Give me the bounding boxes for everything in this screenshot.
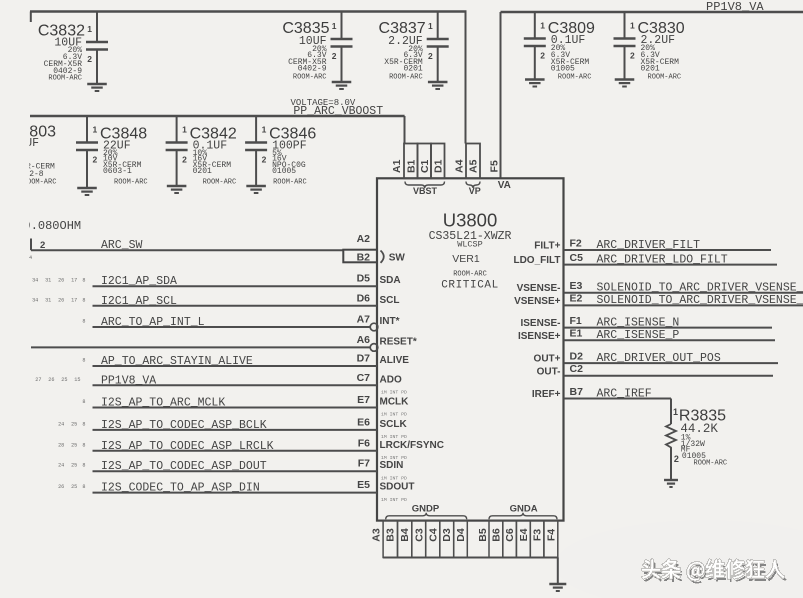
svg-text:34: 34 xyxy=(32,297,38,303)
svg-text:25: 25 xyxy=(71,484,77,490)
svg-text:4: 4 xyxy=(29,255,32,261)
svg-text:1: 1 xyxy=(630,21,635,31)
svg-text:2: 2 xyxy=(630,51,635,61)
svg-text:01005: 01005 xyxy=(551,65,575,74)
svg-text:SDOUT: SDOUT xyxy=(380,482,415,493)
svg-text:31: 31 xyxy=(45,278,51,284)
svg-text:F1: F1 xyxy=(570,315,582,327)
svg-text:8: 8 xyxy=(82,484,85,490)
svg-text:1: 1 xyxy=(87,24,92,34)
svg-text:1: 1 xyxy=(182,125,187,135)
svg-text:34: 34 xyxy=(32,278,38,284)
svg-text:0201: 0201 xyxy=(193,167,212,176)
svg-text:26: 26 xyxy=(48,377,54,383)
svg-text:E7: E7 xyxy=(357,394,370,406)
svg-text:1M INT PD: 1M INT PD xyxy=(381,390,407,396)
svg-text:25: 25 xyxy=(61,377,67,383)
svg-text:ARC_ISENSE_N: ARC_ISENSE_N xyxy=(597,316,680,329)
svg-text:ARC_DRIVER_LDO_FILT: ARC_DRIVER_LDO_FILT xyxy=(597,253,728,266)
svg-text:ROOM-ARC: ROOM-ARC xyxy=(453,270,487,278)
svg-text:F5: F5 xyxy=(489,160,501,172)
svg-text:WLCSP: WLCSP xyxy=(457,240,483,250)
svg-text:26: 26 xyxy=(58,278,64,284)
svg-text:ARC_DRIVER_FILT: ARC_DRIVER_FILT xyxy=(597,239,701,252)
svg-text:1M INT PD: 1M INT PD xyxy=(381,497,407,503)
svg-text:ARC_DRIVER_OUT_POS: ARC_DRIVER_OUT_POS xyxy=(597,352,721,365)
svg-text:8: 8 xyxy=(82,319,85,325)
svg-text:25: 25 xyxy=(71,421,77,427)
svg-text:1: 1 xyxy=(673,407,678,417)
svg-text:1: 1 xyxy=(540,21,545,31)
svg-text:RESET*: RESET* xyxy=(380,336,417,347)
svg-text:0402-9: 0402-9 xyxy=(298,65,327,74)
svg-text:C3: C3 xyxy=(413,528,425,542)
svg-text:GNDP: GNDP xyxy=(412,504,440,515)
svg-text:U3800: U3800 xyxy=(443,210,498,231)
svg-text:B4: B4 xyxy=(399,528,411,542)
svg-text:B5: B5 xyxy=(477,528,489,542)
svg-text:B2: B2 xyxy=(357,252,371,264)
svg-text:I2S_CODEC_TO_AP_ASP_DIN: I2S_CODEC_TO_AP_ASP_DIN xyxy=(101,482,260,495)
svg-text:ROOM-ARC: ROOM-ARC xyxy=(203,179,237,187)
svg-text:ROOM-ARC: ROOM-ARC xyxy=(48,75,82,83)
svg-text:SOLENOID_TO_ARC_DRIVER_VSENSE_: SOLENOID_TO_ARC_DRIVER_VSENSE_P xyxy=(597,294,803,307)
svg-text:27: 27 xyxy=(35,377,41,383)
svg-text:1M INT PD: 1M INT PD xyxy=(381,475,407,481)
svg-text:I2S_AP_TO_CODEC_ASP_BCLK: I2S_AP_TO_CODEC_ASP_BCLK xyxy=(101,419,267,432)
svg-text:A4: A4 xyxy=(454,159,466,173)
svg-text:2: 2 xyxy=(182,155,187,165)
svg-text:2: 2 xyxy=(40,240,45,251)
svg-text:FILT+: FILT+ xyxy=(534,241,560,252)
svg-text:VP: VP xyxy=(469,186,481,196)
svg-text:2: 2 xyxy=(93,155,98,165)
svg-text:2: 2 xyxy=(262,155,267,165)
svg-text:C4: C4 xyxy=(427,528,439,542)
svg-text:ROOM-ARC: ROOM-ARC xyxy=(694,460,728,468)
svg-text:B1: B1 xyxy=(405,159,417,173)
svg-text:2: 2 xyxy=(428,51,433,61)
svg-text:SOLENOID_TO_ARC_DRIVER_VSENSE_: SOLENOID_TO_ARC_DRIVER_VSENSE_N xyxy=(597,282,803,295)
svg-text:F2: F2 xyxy=(570,237,582,249)
svg-text:I2C1_AP_SCL: I2C1_AP_SCL xyxy=(101,295,177,308)
svg-text:8: 8 xyxy=(82,442,85,448)
svg-text:ROOM-ARC: ROOM-ARC xyxy=(558,74,592,82)
svg-text:VSENSE+: VSENSE+ xyxy=(514,296,561,307)
svg-text:I2S_AP_TO_CODEC_ASP_LRCLK: I2S_AP_TO_CODEC_ASP_LRCLK xyxy=(101,440,274,453)
svg-text:E6: E6 xyxy=(357,416,370,428)
svg-text:C5: C5 xyxy=(570,252,584,264)
svg-text:SW: SW xyxy=(389,253,406,264)
svg-text:SDA: SDA xyxy=(380,275,401,286)
svg-text:ROOM-ARC: ROOM-ARC xyxy=(114,179,148,187)
svg-text:ADO: ADO xyxy=(380,374,402,385)
svg-text:LRCK/FSYNC: LRCK/FSYNC xyxy=(380,440,444,451)
svg-text:D3: D3 xyxy=(441,528,453,542)
svg-text:0201: 0201 xyxy=(403,65,422,74)
svg-text:PP_ARC_VBOOST: PP_ARC_VBOOST xyxy=(293,105,383,118)
svg-text:CRITICAL: CRITICAL xyxy=(441,279,499,291)
svg-text:GNDA: GNDA xyxy=(510,504,538,515)
svg-text:1M INT PD: 1M INT PD xyxy=(381,412,407,418)
svg-text:B7: B7 xyxy=(570,386,584,398)
svg-text:C7: C7 xyxy=(357,372,371,384)
svg-text:ROOM-ARC: ROOM-ARC xyxy=(293,74,327,82)
svg-text:17: 17 xyxy=(71,278,77,284)
svg-text:E2: E2 xyxy=(570,293,583,305)
svg-text:F3: F3 xyxy=(532,529,544,541)
svg-text:SCLK: SCLK xyxy=(380,419,408,430)
svg-text:1: 1 xyxy=(93,125,98,135)
svg-text:D6: D6 xyxy=(357,292,371,304)
svg-text:MCLK: MCLK xyxy=(380,397,410,408)
svg-text:LDO_FILT: LDO_FILT xyxy=(513,255,560,266)
svg-text:D1: D1 xyxy=(433,159,445,173)
svg-text:VER1: VER1 xyxy=(452,253,480,265)
svg-text:ALIVE: ALIVE xyxy=(380,355,410,366)
svg-text:C6: C6 xyxy=(504,528,516,542)
svg-text:A5: A5 xyxy=(468,159,480,173)
svg-text:INT*: INT* xyxy=(380,316,400,327)
svg-text:28: 28 xyxy=(58,442,64,448)
svg-text:F6: F6 xyxy=(358,437,370,449)
svg-text:E1: E1 xyxy=(570,328,583,340)
svg-text:OUT+: OUT+ xyxy=(534,354,561,365)
svg-text:E4: E4 xyxy=(518,528,530,541)
svg-text:ROOM-ARC: ROOM-ARC xyxy=(273,179,307,187)
svg-text:E5: E5 xyxy=(357,479,370,491)
svg-text:17: 17 xyxy=(71,297,77,303)
svg-text:ISENSE+: ISENSE+ xyxy=(518,331,561,342)
svg-text:D4: D4 xyxy=(455,528,467,542)
svg-text:I2C1_AP_SDA: I2C1_AP_SDA xyxy=(101,275,177,288)
svg-text:24: 24 xyxy=(58,421,64,427)
svg-text:2: 2 xyxy=(674,454,679,464)
svg-text:D2: D2 xyxy=(570,350,584,362)
svg-text:1: 1 xyxy=(262,125,267,135)
svg-text:ARC_SW: ARC_SW xyxy=(101,239,143,252)
svg-text:A7: A7 xyxy=(357,314,371,326)
svg-text:PP1V8_VA: PP1V8_VA xyxy=(101,374,156,387)
svg-text:8: 8 xyxy=(82,463,85,469)
svg-text:2: 2 xyxy=(332,51,337,61)
svg-text:8: 8 xyxy=(82,421,85,427)
svg-text:01005: 01005 xyxy=(272,167,296,176)
svg-text:IREF+: IREF+ xyxy=(532,389,561,400)
svg-text:8: 8 xyxy=(82,358,85,364)
svg-text:F7: F7 xyxy=(358,458,370,470)
svg-text:0.080OHM: 0.080OHM xyxy=(24,219,82,233)
svg-text:ISENSE-: ISENSE- xyxy=(520,318,560,329)
svg-text:A1: A1 xyxy=(391,159,403,173)
svg-text:26: 26 xyxy=(58,297,64,303)
svg-text:15: 15 xyxy=(74,377,80,383)
svg-text:ARC_ISENSE_P: ARC_ISENSE_P xyxy=(597,329,680,342)
svg-text:2: 2 xyxy=(87,54,92,64)
svg-text:24: 24 xyxy=(58,463,64,469)
svg-text:E3: E3 xyxy=(570,280,583,292)
svg-text:ROOM-ARC: ROOM-ARC xyxy=(648,74,682,82)
svg-text:PP1V8_VA: PP1V8_VA xyxy=(706,0,764,14)
svg-text:VSENSE-: VSENSE- xyxy=(517,283,561,294)
svg-text:1: 1 xyxy=(428,21,433,31)
svg-text:D7: D7 xyxy=(357,353,371,365)
svg-text:I2S_AP_TO_ARC_MCLK: I2S_AP_TO_ARC_MCLK xyxy=(101,397,225,410)
svg-text:8: 8 xyxy=(82,399,85,405)
svg-text:A6: A6 xyxy=(357,334,371,346)
svg-text:AP_TO_ARC_STAYIN_ALIVE: AP_TO_ARC_STAYIN_ALIVE xyxy=(101,355,253,368)
svg-text:VBST: VBST xyxy=(413,186,438,196)
svg-text:B6: B6 xyxy=(490,528,502,542)
svg-text:0201: 0201 xyxy=(641,65,660,74)
svg-text:2: 2 xyxy=(540,51,545,61)
svg-text:C1: C1 xyxy=(419,159,431,173)
svg-text:ARC_TO_AP_INT_L: ARC_TO_AP_INT_L xyxy=(101,316,205,329)
svg-text:A2: A2 xyxy=(357,233,371,245)
svg-text:A3: A3 xyxy=(371,528,383,542)
svg-text:B3: B3 xyxy=(385,528,397,542)
svg-text:31: 31 xyxy=(45,297,51,303)
svg-text:SCL: SCL xyxy=(380,295,400,306)
svg-text:VA: VA xyxy=(498,180,511,191)
svg-text:8: 8 xyxy=(82,278,85,284)
svg-text:OUT-: OUT- xyxy=(537,366,561,377)
svg-text:0603-1: 0603-1 xyxy=(103,167,132,176)
svg-text:I2S_AP_TO_CODEC_ASP_DOUT: I2S_AP_TO_CODEC_ASP_DOUT xyxy=(101,460,267,473)
svg-text:ROOM-ARC: ROOM-ARC xyxy=(389,74,423,82)
svg-text:8: 8 xyxy=(82,297,85,303)
svg-text:F4: F4 xyxy=(545,529,557,541)
svg-text:25: 25 xyxy=(71,442,77,448)
svg-text:D5: D5 xyxy=(357,273,371,285)
svg-text:25: 25 xyxy=(71,463,77,469)
svg-text:26: 26 xyxy=(58,484,64,490)
svg-text:SDIN: SDIN xyxy=(380,460,404,471)
svg-text:1: 1 xyxy=(332,21,337,31)
svg-text:C2: C2 xyxy=(570,363,584,375)
